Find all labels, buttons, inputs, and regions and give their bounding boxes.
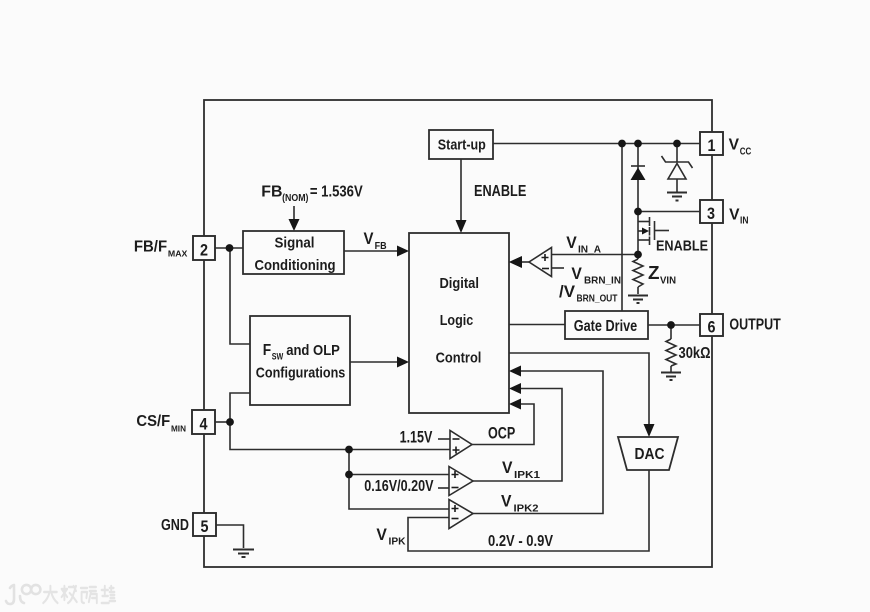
svg-text:1.15V: 1.15V	[400, 429, 433, 447]
node: rail-zener junction	[673, 140, 681, 148]
svg-text:2: 2	[200, 241, 208, 260]
wire: zener anode to ground	[676, 179, 678, 192]
wire: Start-up to VCC rail y=143.5	[493, 143, 700, 145]
U5 minus	[452, 518, 459, 520]
U3 plus	[453, 447, 460, 454]
svg-text:VIN: VIN	[660, 276, 676, 287]
pin 2 box FB/FMAX	[193, 236, 215, 260]
wire: pin4 node down to OCP plus input	[230, 422, 450, 450]
wire: DLC to DAC	[509, 353, 649, 426]
wire: pin2 to Signal Conditioning	[215, 247, 243, 249]
svg-text:FB/F: FB/F	[134, 239, 167, 256]
svg-text:OUTPUT: OUTPUT	[729, 317, 781, 334]
U2 plus	[542, 254, 549, 261]
pin 3 box VIN	[700, 200, 723, 223]
watermark logo	[6, 585, 40, 604]
wire: VIPK2 minus input from DAC bottom loop	[408, 470, 649, 551]
node: pin3 junction	[634, 208, 642, 216]
svg-text:IPK2: IPK2	[514, 504, 539, 515]
block: Digital Logic Control	[409, 233, 509, 413]
IC boundary box	[204, 100, 712, 567]
svg-text:/V: /V	[559, 283, 575, 301]
U3 minus	[453, 438, 460, 440]
wire: pin4 node up to Fsw box	[230, 393, 250, 422]
wire: node to pin 3	[638, 211, 700, 213]
svg-text:SW: SW	[272, 352, 284, 363]
arrow: enable comparator output into DLC	[509, 257, 521, 268]
svg-text:BRN_OUT: BRN_OUT	[577, 294, 618, 305]
U5 plus	[452, 505, 459, 512]
wire: branch down to VIPK2 plus	[349, 475, 449, 510]
arrow: FBnom into Signal Conditioning	[289, 219, 300, 231]
wire: 1.15V stub to OCP minus	[438, 438, 450, 440]
block: Signal Conditioning	[243, 231, 344, 274]
svg-text:FB: FB	[375, 241, 387, 252]
node: VIPK1 line junction	[345, 471, 353, 479]
svg-text:(NOM): (NOM)	[282, 193, 308, 204]
svg-text:MAX: MAX	[168, 249, 188, 259]
node: pin4 junction	[226, 418, 234, 426]
block: DAC	[618, 437, 678, 470]
svg-text:CC: CC	[740, 147, 752, 158]
svg-text:5: 5	[201, 517, 209, 536]
resistor ZVIN	[633, 259, 643, 287]
node: pin2 junction	[226, 244, 234, 252]
wire: VIPK1 output loop to DLC	[473, 389, 562, 482]
diode D1 (VCC rail)	[631, 166, 646, 180]
svg-text:Logic: Logic	[440, 312, 474, 329]
svg-text:V: V	[502, 459, 513, 477]
wire: pin4 to node	[215, 421, 230, 423]
svg-text:IPK1: IPK1	[514, 470, 541, 481]
wire: rail down to Gate Drive x=622	[621, 144, 623, 312]
svg-text:0.16V/0.20V: 0.16V/0.20V	[364, 478, 434, 495]
svg-text:V: V	[376, 526, 387, 544]
svg-text:Digital: Digital	[439, 275, 479, 292]
op-amp U3 OCP comparator	[450, 431, 472, 459]
comparator input polarity signs	[452, 254, 550, 519]
op-amp U4 VIPK1 comparator	[449, 467, 473, 496]
ground (pin 5)	[233, 550, 254, 558]
wire: VFB Signal Conditioning to DLC	[344, 250, 400, 252]
wire: 30k resistor to ground	[670, 366, 672, 372]
op-amp U5 VIPK2 comparator	[449, 500, 473, 529]
ground (zener)	[667, 193, 687, 201]
svg-text:DAC: DAC	[635, 446, 665, 463]
arrow: VIPK2 loop into DLC	[509, 366, 521, 377]
pin 1 box VCC	[700, 132, 723, 155]
arrow: Fsw into DLC	[397, 357, 409, 368]
node: output 30k junction	[667, 321, 675, 329]
svg-text:V: V	[566, 234, 577, 252]
U4 minus	[452, 487, 459, 489]
arrow: OCP loop into DLC	[509, 399, 521, 410]
wire: VIN_A line to enable comparator	[552, 254, 639, 256]
wire: branch down to VIPK1 plus	[349, 450, 449, 475]
arrow: VFB into DLC	[397, 246, 409, 257]
PIN BOXES	[192, 132, 723, 536]
zener diode VR1	[662, 156, 693, 179]
svg-text:IN_A: IN_A	[578, 245, 601, 256]
wire: MOSFET source node down to Zvin	[637, 255, 639, 260]
block: Fsw and OLP Configurations	[250, 316, 350, 405]
svg-text:1: 1	[708, 136, 716, 155]
wire: pin5 to ground	[216, 525, 244, 548]
svg-text:Signal: Signal	[275, 235, 315, 252]
wire: 0.16V/0.20V stub to VIPK1 minus	[438, 487, 449, 489]
svg-text:BRN_IN: BRN_IN	[584, 276, 621, 287]
svg-text:CS/F: CS/F	[136, 413, 170, 430]
svg-text:V: V	[571, 265, 582, 283]
svg-text:MIN: MIN	[171, 424, 186, 434]
node: VIN_A junction	[634, 251, 642, 259]
wire: VIPK2 output loop to DLC	[473, 371, 603, 514]
svg-text:FB: FB	[261, 184, 282, 201]
node: rail-diode junction	[634, 140, 642, 148]
svg-text:Conditioning: Conditioning	[255, 257, 336, 274]
svg-text:GND: GND	[161, 517, 189, 534]
svg-text:Control: Control	[436, 349, 482, 366]
svg-text:6: 6	[708, 318, 716, 337]
svg-text:V: V	[501, 493, 512, 511]
svg-text:3: 3	[707, 204, 715, 223]
svg-text:ENABLE: ENABLE	[474, 183, 527, 200]
transistor Q1 MOSFET	[638, 217, 669, 245]
svg-text:ENABLE: ENABLE	[656, 238, 708, 255]
U4 plus	[452, 471, 459, 478]
ground (ZVIN)	[628, 296, 648, 304]
ground (30k)	[661, 373, 681, 381]
svg-text:OCP: OCP	[488, 425, 515, 443]
node: OCP line junction	[345, 446, 353, 454]
svg-text:Z: Z	[648, 263, 660, 283]
op-amp U2 enable comparator	[509, 248, 552, 277]
svg-text:and OLP: and OLP	[286, 342, 340, 359]
arrow: VIPK1 loop into DLC	[509, 383, 521, 394]
pin 5 box GND	[193, 513, 216, 536]
wire: pin2 branch down to Fsw box	[230, 248, 250, 344]
wire: output node down to 30k resistor	[670, 325, 672, 339]
svg-text:V: V	[729, 207, 740, 224]
svg-text:F: F	[263, 342, 271, 359]
arrow: ENABLE into DLC top	[456, 220, 467, 233]
wire: zener branch x=677	[676, 144, 678, 163]
U2 minus	[542, 268, 549, 270]
svg-text:V: V	[729, 137, 740, 154]
wire: enable comparator minus stub	[552, 267, 565, 269]
wire: Start-up ENABLE drop to DLC	[460, 159, 462, 231]
wire: Gate Drive to pin 6	[648, 324, 700, 326]
ARROWHEADS	[289, 219, 655, 437]
svg-text:4: 4	[200, 415, 208, 434]
arrow: DLC into DAC top	[644, 424, 655, 437]
wire: Zvin to ground	[637, 287, 639, 294]
svg-text:Gate Drive: Gate Drive	[574, 318, 638, 335]
svg-text:Start-up: Start-up	[438, 137, 486, 154]
block: Gate Drive	[565, 311, 648, 339]
svg-text:0.2V - 0.9V: 0.2V - 0.9V	[488, 533, 553, 550]
watermark text da shu kua jing	[43, 586, 115, 603]
svg-text:30kΩ: 30kΩ	[679, 345, 711, 362]
svg-text:V: V	[364, 230, 374, 248]
svg-text:Configurations: Configurations	[256, 365, 345, 382]
wire: FBnom arrow drop	[293, 206, 295, 222]
resistor R1 30k	[666, 339, 676, 366]
BLOCKS	[243, 130, 678, 470]
pin 4 box CS/FMIN	[192, 410, 215, 434]
pin 6 box OUTPUT	[700, 314, 723, 336]
node: rail-gate drive junction	[618, 140, 626, 148]
svg-text:IPK: IPK	[389, 537, 407, 548]
wire: rail down to diode/pin3 branch x=638	[637, 144, 639, 255]
wire: Fsw to DLC	[350, 361, 400, 363]
svg-text:IN: IN	[740, 216, 749, 227]
wire: OCP output loop to DLC	[472, 404, 534, 445]
svg-text:= 1.536V: = 1.536V	[310, 184, 363, 201]
block: Start-up U-startup	[429, 130, 493, 159]
wire: DLC to Gate Drive	[509, 324, 565, 326]
